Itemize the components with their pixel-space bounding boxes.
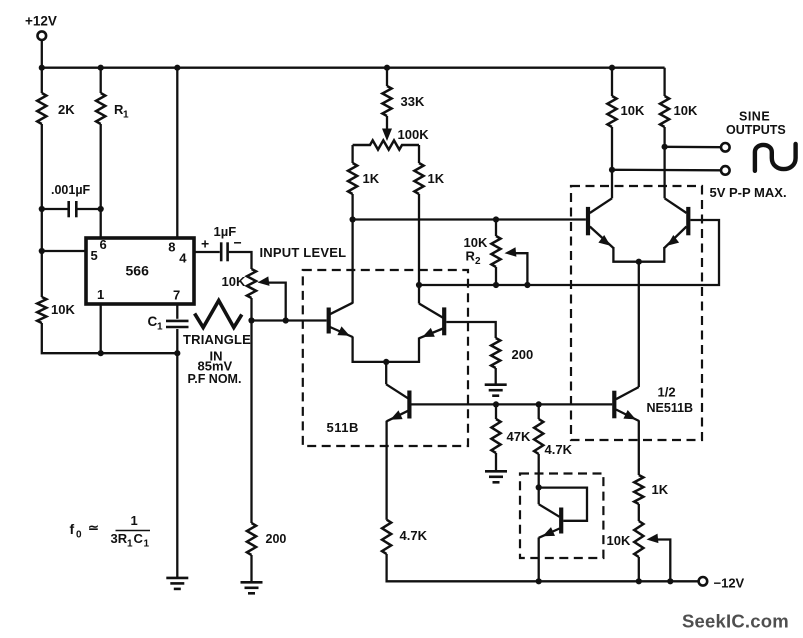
- wire 200 to ground: [495, 368, 497, 385]
- svg-text:1: 1: [157, 322, 163, 333]
- wire 100K right drop: [418, 145, 420, 163]
- resistor 1K right: [414, 163, 444, 194]
- node diode collector: [536, 484, 542, 490]
- transistor Q2 collector: [419, 285, 443, 318]
- transistor Q1 collector: [330, 220, 353, 315]
- svg-text:SINE: SINE: [739, 110, 770, 124]
- node bias / 47K: [493, 401, 499, 407]
- wire 10K left to node: [611, 127, 613, 170]
- resistor 47K: [491, 419, 531, 453]
- svg-text:10K: 10K: [222, 274, 246, 289]
- svg-text:10K: 10K: [51, 302, 75, 317]
- svg-text:.001µF: .001µF: [51, 183, 91, 197]
- svg-text:INPUT LEVEL: INPUT LEVEL: [260, 245, 347, 260]
- wire pin 4 to 1uF: [194, 251, 220, 253]
- svg-text:1: 1: [123, 110, 129, 121]
- svg-text:−: −: [234, 235, 242, 251]
- transistor Q3a emitter: [387, 410, 408, 519]
- transistor Q4 collector: [665, 147, 687, 213]
- transistor Q6 emitter: [539, 527, 560, 581]
- svg-text:7: 7: [173, 288, 180, 303]
- ground under input 200: [241, 582, 263, 593]
- wire 33K to arrow: [386, 116, 388, 130]
- transistor Q4 bar: [686, 207, 690, 235]
- svg-text:511B: 511B: [327, 420, 359, 435]
- transistor Q6 collector: [539, 487, 560, 516]
- node top rail / 33K: [384, 65, 390, 71]
- svg-text:2: 2: [475, 256, 481, 267]
- wire 10K right to node: [663, 127, 665, 147]
- node 10K pot / rail: [636, 578, 642, 584]
- node input level: [248, 317, 254, 323]
- transistor Q3a collector: [386, 384, 408, 398]
- node Q6 emitter / -12V rail: [536, 578, 542, 584]
- terminal sine output 1: [721, 143, 730, 152]
- wire 47K to ground: [495, 453, 497, 471]
- svg-text:1K: 1K: [652, 482, 669, 497]
- wire input pot bottom: [250, 298, 252, 321]
- node R2 wiper / feedback line: [524, 282, 530, 288]
- watermark SeekIC.com: [682, 611, 789, 632]
- svg-text:C: C: [148, 314, 158, 329]
- wire 100K left drop: [351, 145, 353, 163]
- transistor Q1 bar: [327, 308, 331, 334]
- wire 200 to ground: [250, 555, 252, 582]
- label 5V P-P MAX.: [710, 185, 787, 200]
- svg-text:−12V: −12V: [714, 576, 745, 591]
- svg-text:+12V: +12V: [25, 14, 57, 29]
- ground under 47K: [485, 471, 507, 482]
- wire C1 node to ground: [176, 353, 178, 578]
- R2 wiper arrow: [505, 247, 528, 285]
- wire +12V to top rail: [41, 40, 43, 67]
- wire 4.7K to diode node: [538, 454, 540, 487]
- svg-text:+: +: [201, 236, 209, 252]
- svg-text:1: 1: [97, 287, 104, 302]
- wire left rail lower: [41, 251, 43, 297]
- svg-text:TRIANGLE: TRIANGLE: [183, 332, 251, 347]
- wire Q3 base: [585, 218, 588, 220]
- svg-text:10K: 10K: [607, 533, 631, 548]
- node common emitters pair2: [636, 259, 642, 265]
- svg-text:4: 4: [179, 250, 187, 265]
- transistor Q4 emitter: [639, 227, 687, 262]
- svg-text:2K: 2K: [58, 102, 75, 117]
- node R1 / .001uF: [98, 206, 104, 212]
- +12V supply terminal: [25, 14, 57, 41]
- 10K pot wiper arrow: [647, 534, 671, 582]
- svg-text:0: 0: [76, 530, 82, 541]
- dashed box NE511B: [571, 186, 702, 440]
- arrow 33K wiper onto 100K: [382, 129, 392, 142]
- wire pin 5 to left rail: [42, 250, 86, 252]
- wire pin 8 rail: [176, 68, 178, 238]
- resistor 1K emitter: [634, 475, 669, 504]
- transistor Q3 bar: [586, 207, 590, 235]
- svg-text:6: 6: [100, 237, 107, 252]
- terminal -12V: [699, 576, 745, 591]
- resistor R1: [96, 93, 129, 124]
- wire 1K right down: [418, 194, 420, 285]
- wire pin 7 to C1: [176, 304, 178, 319]
- formula f0 = 1/3R1C1: [70, 513, 151, 550]
- capacitor 1uF: [201, 224, 242, 261]
- transistor Q3 emitter: [590, 227, 639, 262]
- node pin1 rail / bottom wire: [98, 350, 104, 356]
- svg-text:47K: 47K: [507, 429, 531, 444]
- node wiper / input wire: [283, 317, 289, 323]
- resistor 10K left: [37, 297, 75, 323]
- label TRIANGLE IN 85mV P.F NOM.: [183, 332, 251, 386]
- svg-text:f: f: [70, 521, 75, 537]
- svg-text:NE511B: NE511B: [647, 401, 694, 415]
- svg-text:33K: 33K: [401, 94, 425, 109]
- node 10K left / output: [609, 167, 615, 173]
- node 1K left / base line: [350, 216, 356, 222]
- ground under C1 rail: [166, 578, 188, 589]
- wire common to Q5 collector: [638, 262, 640, 387]
- transistor Q2 bar: [442, 307, 446, 335]
- wire Q3a base: [412, 403, 497, 405]
- potentiometer 100K: [353, 127, 430, 150]
- svg-text:OUTPUTS: OUTPUTS: [726, 123, 786, 137]
- potentiometer R2 10K: [464, 235, 501, 267]
- resistor 4.7K tail: [382, 520, 428, 554]
- svg-text:10K: 10K: [674, 103, 698, 118]
- potentiometer 10K input level: [222, 269, 257, 298]
- wire 47K top: [495, 404, 497, 419]
- svg-text:1: 1: [127, 539, 133, 550]
- svg-text:C: C: [134, 531, 144, 546]
- resistor 2K: [37, 93, 75, 124]
- svg-text:200: 200: [266, 532, 287, 546]
- wire R1 to pin 6: [100, 124, 102, 238]
- svg-text:1: 1: [131, 513, 138, 528]
- terminal sine output 2: [721, 166, 730, 175]
- svg-text:SeekIC.com: SeekIC.com: [682, 611, 789, 632]
- dashed box 511B: [303, 270, 468, 446]
- svg-text:4.7K: 4.7K: [400, 528, 428, 543]
- IC U1 566 VCO: [86, 237, 194, 304]
- svg-text:4.7K: 4.7K: [545, 442, 573, 457]
- node top rail / R1: [98, 65, 104, 71]
- wire base line A: [353, 218, 586, 220]
- wire R2 bottom: [495, 267, 497, 285]
- wire 1uF to input pot: [229, 252, 252, 269]
- svg-text:100K: 100K: [398, 127, 430, 142]
- node 10K right / output: [662, 144, 668, 150]
- svg-text:5V P-P MAX.: 5V P-P MAX.: [710, 185, 787, 200]
- svg-text:566: 566: [126, 262, 150, 278]
- svg-text:8: 8: [168, 239, 175, 254]
- capacitor C1: [148, 314, 189, 353]
- transistor Q1 emitter: [330, 326, 386, 362]
- svg-text:R: R: [466, 249, 476, 264]
- node R2 / feedback line: [493, 282, 499, 288]
- potentiometer 10K offset: [607, 521, 644, 557]
- svg-text:≃: ≃: [88, 520, 99, 535]
- wire input node to 200: [250, 321, 252, 524]
- wire pin 1 rail: [100, 304, 102, 353]
- transistor Q2 emitter: [386, 328, 443, 362]
- node common emitters pair1: [383, 359, 389, 365]
- dashed box diode transistor: [520, 474, 603, 559]
- input pot wiper arrow: [258, 276, 286, 320]
- svg-text:10K: 10K: [621, 103, 645, 118]
- node bias / 4.7K: [536, 401, 542, 407]
- wire 4.7K to -12V rail: [387, 554, 699, 581]
- node top rail / pin 8: [174, 65, 180, 71]
- wire 10K pot to rail: [638, 557, 640, 581]
- node left rail / pin 5: [39, 248, 45, 254]
- transistor Q5 bar: [612, 391, 616, 419]
- label SINE OUTPUTS: [726, 110, 786, 138]
- wire left rail mid: [41, 124, 43, 251]
- sine waveform symbol: [755, 144, 796, 171]
- wire R2 top: [495, 220, 497, 237]
- resistor 4.7K bias: [534, 419, 572, 457]
- svg-text:P.F NOM.: P.F NOM.: [188, 372, 242, 386]
- wire input node to Q1 base: [252, 319, 327, 321]
- ground under 200: [485, 385, 507, 396]
- wire output 1: [665, 146, 721, 149]
- wire Q2 base to 200: [446, 322, 495, 338]
- capacitor .001uF: [42, 183, 101, 217]
- wire 33K top: [386, 68, 388, 86]
- resistor 200 Q2 base: [491, 338, 533, 368]
- transistor Q5 emitter: [616, 410, 639, 476]
- wire 1K left to node: [351, 194, 353, 220]
- wire output 2: [612, 169, 721, 172]
- wire left rail bottom to corner: [42, 323, 178, 353]
- transistor Q3a bar: [407, 391, 411, 419]
- wire common emitters to Q3a: [385, 362, 387, 384]
- svg-text:200: 200: [512, 347, 534, 362]
- resistor 33K: [382, 86, 425, 116]
- wire left rail upper: [41, 68, 43, 93]
- top +12V rail: [42, 67, 665, 69]
- svg-text:3R: 3R: [111, 531, 128, 546]
- transistor Q6 base loop: [539, 488, 587, 521]
- transistor Q5 collector: [616, 387, 639, 399]
- wire bias line: [496, 403, 612, 405]
- svg-text:1/2: 1/2: [658, 385, 676, 400]
- wire feedback line: [419, 220, 719, 285]
- node wiper / rail: [667, 578, 673, 584]
- svg-text:1K: 1K: [363, 171, 380, 186]
- node collector Q2 line: [416, 282, 422, 288]
- transistor Q6 bar: [559, 508, 563, 534]
- node base line / R2: [493, 216, 499, 222]
- wire 4.7K top: [538, 404, 540, 419]
- wire 1K to 10K pot: [638, 504, 640, 521]
- node top rail / left rail: [39, 65, 45, 71]
- resistor 10K out left: [607, 68, 645, 127]
- label INPUT LEVEL: [260, 245, 347, 260]
- triangle waveform symbol: [195, 301, 242, 328]
- wire R1 rail: [100, 68, 102, 93]
- node left rail / .001uF: [39, 206, 45, 212]
- svg-text:1: 1: [144, 539, 150, 550]
- svg-text:1K: 1K: [428, 171, 445, 186]
- node pin7 rail / bottom wire: [174, 350, 180, 356]
- svg-text:5: 5: [91, 248, 98, 263]
- resistor 200 input bias: [247, 523, 287, 555]
- transistor Q3 collector: [590, 170, 612, 213]
- resistor 1K left: [348, 163, 380, 194]
- node top rail / 10K left: [609, 65, 615, 71]
- resistor 10K out right: [660, 68, 698, 127]
